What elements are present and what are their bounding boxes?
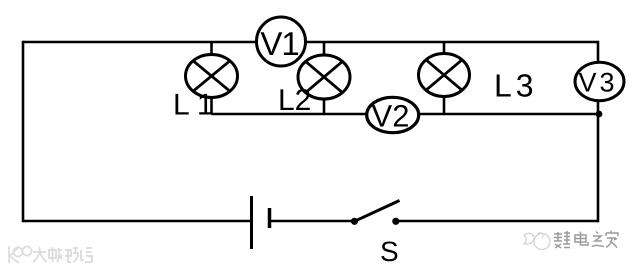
char zhi [592,232,604,247]
wire top from left corner to right corner [23,41,598,44]
watermark text bottom-left (hanzi "da min kua jing", drawn) [33,247,92,262]
svg-text:S: S [380,236,399,267]
battery long plate (+) [250,196,253,249]
wire right vertical [597,41,600,223]
voltmeter V2 [367,97,419,133]
char dian [575,232,588,246]
switch S left contact [351,218,358,225]
char gan [554,231,570,248]
wire switch to right corner [396,220,598,223]
svg-text:V2: V2 [372,99,410,134]
watermark text bottom-right (hanzi "gan dian zhi jia", drawn) [554,231,618,249]
char jia [606,231,618,248]
svg-text:V1: V1 [260,25,298,62]
wire bottom left segment [23,220,252,223]
lamp L1 [186,55,238,98]
switch S lever [355,201,400,222]
lamp L2 [298,55,350,99]
wire drop L3 [443,42,446,114]
svg-text:V3: V3 [578,68,617,98]
wire drop L2 [323,42,326,114]
svg-text:L2: L2 [278,84,311,117]
wire left vertical [22,41,25,223]
junction node (right vertical / middle bus) [596,111,603,118]
voltmeter V1 [257,17,306,66]
watermark logo bottom-left [9,246,32,263]
voltmeter V3 [575,62,624,100]
wire battery to switch [270,220,355,223]
lamp L3 [419,54,470,97]
svg-text:L3: L3 [494,68,538,104]
svg-text:L 1: L 1 [173,89,214,122]
wire drop L1 [210,42,213,114]
battery short plate (-) [268,208,272,228]
watermark logo bottom-right [524,233,550,250]
wire middle bus [212,113,599,116]
switch S right contact [392,218,399,225]
